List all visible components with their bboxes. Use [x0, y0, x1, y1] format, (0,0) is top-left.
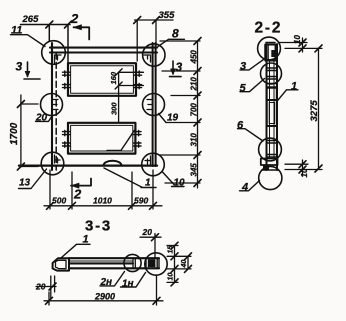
- svg-text:2: 2: [70, 11, 79, 26]
- dim 20 above right end: [140, 234, 161, 259]
- svg-text:210: 210: [190, 77, 199, 92]
- joint near second circle: [267, 68, 278, 79]
- section mark 3 left: [24, 62, 40, 79]
- svg-text:19: 19: [167, 113, 179, 124]
- svg-text:345: 345: [190, 163, 199, 177]
- opening rect upper (inner): [71, 66, 134, 93]
- leader 13: [19, 169, 47, 189]
- svg-text:2900: 2900: [94, 292, 115, 302]
- lifting loop arc on bottom edge: [104, 161, 122, 166]
- svg-text:300: 300: [110, 102, 119, 115]
- panel bottom edge: [19, 164, 157, 166]
- detail circle 3-3 big: [145, 253, 167, 275]
- detail circle MR 19: [143, 94, 165, 116]
- column outer lines: [267, 44, 278, 170]
- panel left edge hidden dashed: [55, 53, 57, 170]
- panel left edge solid: [51, 43, 53, 170]
- svg-text:3: 3: [176, 60, 183, 74]
- svg-text:4: 4: [241, 182, 248, 194]
- detail circle TL 11: [42, 41, 66, 65]
- column bottom flange: [261, 159, 278, 166]
- svg-text:1700: 1700: [9, 122, 20, 145]
- dim 10 bottom (2-2): [302, 160, 304, 176]
- BL corner bracket detail: [55, 155, 61, 163]
- leader 6 (2-2): [238, 129, 264, 141]
- column top cap: [266, 42, 275, 44]
- right dim chain: [160, 41, 200, 188]
- svg-text:500: 500: [52, 196, 66, 206]
- section mark 2 top: [74, 27, 90, 39]
- joint near third circle: [267, 141, 278, 158]
- svg-text:1010: 1010: [93, 196, 112, 206]
- detail circle 2-2 third: [259, 138, 282, 161]
- svg-text:20: 20: [35, 113, 48, 124]
- MR bracket detail: [147, 100, 152, 110]
- beam right end verticals: [133, 258, 135, 268]
- beam body: [69, 258, 159, 268]
- svg-text:355: 355: [159, 10, 176, 21]
- svg-text:8: 8: [172, 27, 179, 41]
- svg-text:1: 1: [145, 178, 151, 189]
- column inner lines: [270, 60, 275, 158]
- dim 265 top-left: [21, 25, 71, 71]
- svg-text:2: 2: [73, 187, 82, 202]
- ML bracket detail: [53, 100, 58, 110]
- svg-text:10: 10: [168, 273, 175, 281]
- leader 11: [11, 35, 46, 47]
- panel right edge (double solid): [153, 43, 156, 166]
- bolts lower-right: [133, 130, 141, 147]
- beam right end dark insert: [148, 259, 156, 267]
- dim 2900: [44, 276, 163, 306]
- opening rect upper (outer): [68, 63, 136, 96]
- leader 3 (2-2): [240, 60, 264, 70]
- leader 1 (3-3): [62, 244, 91, 257]
- detail circle TR 8: [143, 44, 165, 66]
- svg-text:15: 15: [168, 246, 175, 254]
- leader 1 (2-2): [277, 90, 298, 102]
- leader 4 (2-2): [240, 181, 260, 191]
- svg-text:20: 20: [142, 227, 153, 237]
- joint mid-upper + small plate: [267, 84, 278, 88]
- leader 19: [159, 114, 167, 123]
- leader 1 (plan bottom): [104, 168, 156, 188]
- leader 8: [158, 39, 185, 46]
- svg-text:3-3: 3-3: [85, 218, 112, 235]
- svg-text:310: 310: [190, 133, 199, 147]
- label 2 leader: [107, 130, 135, 151]
- opening rect lower (inner): [71, 125, 133, 151]
- svg-text:590: 590: [134, 196, 148, 206]
- svg-text:6: 6: [237, 120, 244, 132]
- svg-text:3275: 3275: [309, 100, 320, 122]
- leader 20: [36, 116, 53, 121]
- dim 20 left (3-3): [36, 276, 56, 299]
- leader 10 (plan bottom right): [163, 172, 185, 187]
- svg-text:265: 265: [22, 14, 40, 25]
- detail circle ML 20: [41, 94, 63, 116]
- panel top edge (double line): [50, 48, 157, 53]
- bolts upper-left: [63, 71, 71, 89]
- TL corner bracket detail: [55, 55, 62, 63]
- detail circle BL 13: [41, 152, 64, 175]
- dim 1700 left: [21, 95, 38, 167]
- section mark 2 bottom: [71, 179, 91, 186]
- detail circle 2-2 second: [261, 63, 282, 84]
- dim 10 top (2-2): [279, 38, 322, 52]
- svg-text:40: 40: [181, 260, 188, 269]
- dim 355 top-right: [135, 20, 174, 61]
- bottom dims 500 1010 590: [44, 170, 162, 209]
- detail circle BR 1/10: [142, 153, 165, 176]
- leader 1H: [121, 273, 146, 288]
- dim 3275 right: [285, 48, 322, 169]
- svg-text:1: 1: [83, 234, 89, 246]
- svg-text:450: 450: [190, 50, 199, 65]
- svg-text:3: 3: [16, 60, 23, 74]
- BR corner bracket detail: [145, 156, 151, 164]
- bolts upper-right: [134, 71, 142, 89]
- svg-text:10: 10: [174, 178, 186, 189]
- small dim 160 inside upper rect: [119, 72, 144, 123]
- svg-text:1: 1: [291, 81, 297, 93]
- svg-text:2н: 2н: [100, 277, 113, 288]
- svg-text:10: 10: [300, 168, 309, 177]
- svg-text:700: 700: [190, 103, 199, 117]
- svg-text:2-2: 2-2: [255, 20, 283, 37]
- svg-text:13: 13: [19, 178, 31, 189]
- leader 5 (2-2): [240, 79, 265, 92]
- svg-text:11: 11: [11, 25, 22, 37]
- svg-text:10: 10: [293, 35, 302, 44]
- bottom cap dark block: [263, 165, 269, 170]
- beam left cap: [53, 258, 69, 270]
- detail circle 2-2 top: [258, 37, 281, 60]
- bolts lower-left: [63, 130, 71, 147]
- svg-text:5: 5: [240, 83, 247, 95]
- svg-text:20: 20: [35, 282, 46, 292]
- TR corner bracket detail: [144, 55, 151, 62]
- svg-text:160: 160: [109, 71, 118, 84]
- detail circle 3-3 small: [124, 254, 141, 271]
- svg-text:1н: 1н: [122, 279, 134, 290]
- leader 2H: [100, 272, 125, 286]
- svg-text:3: 3: [240, 61, 246, 73]
- opening rect lower (outer): [68, 123, 135, 154]
- section mark 3 right: [170, 61, 182, 77]
- right side dims of 3-3: [167, 246, 191, 283]
- detail circle 2-2 bottom: [259, 166, 282, 189]
- middle element 1: [267, 100, 277, 126]
